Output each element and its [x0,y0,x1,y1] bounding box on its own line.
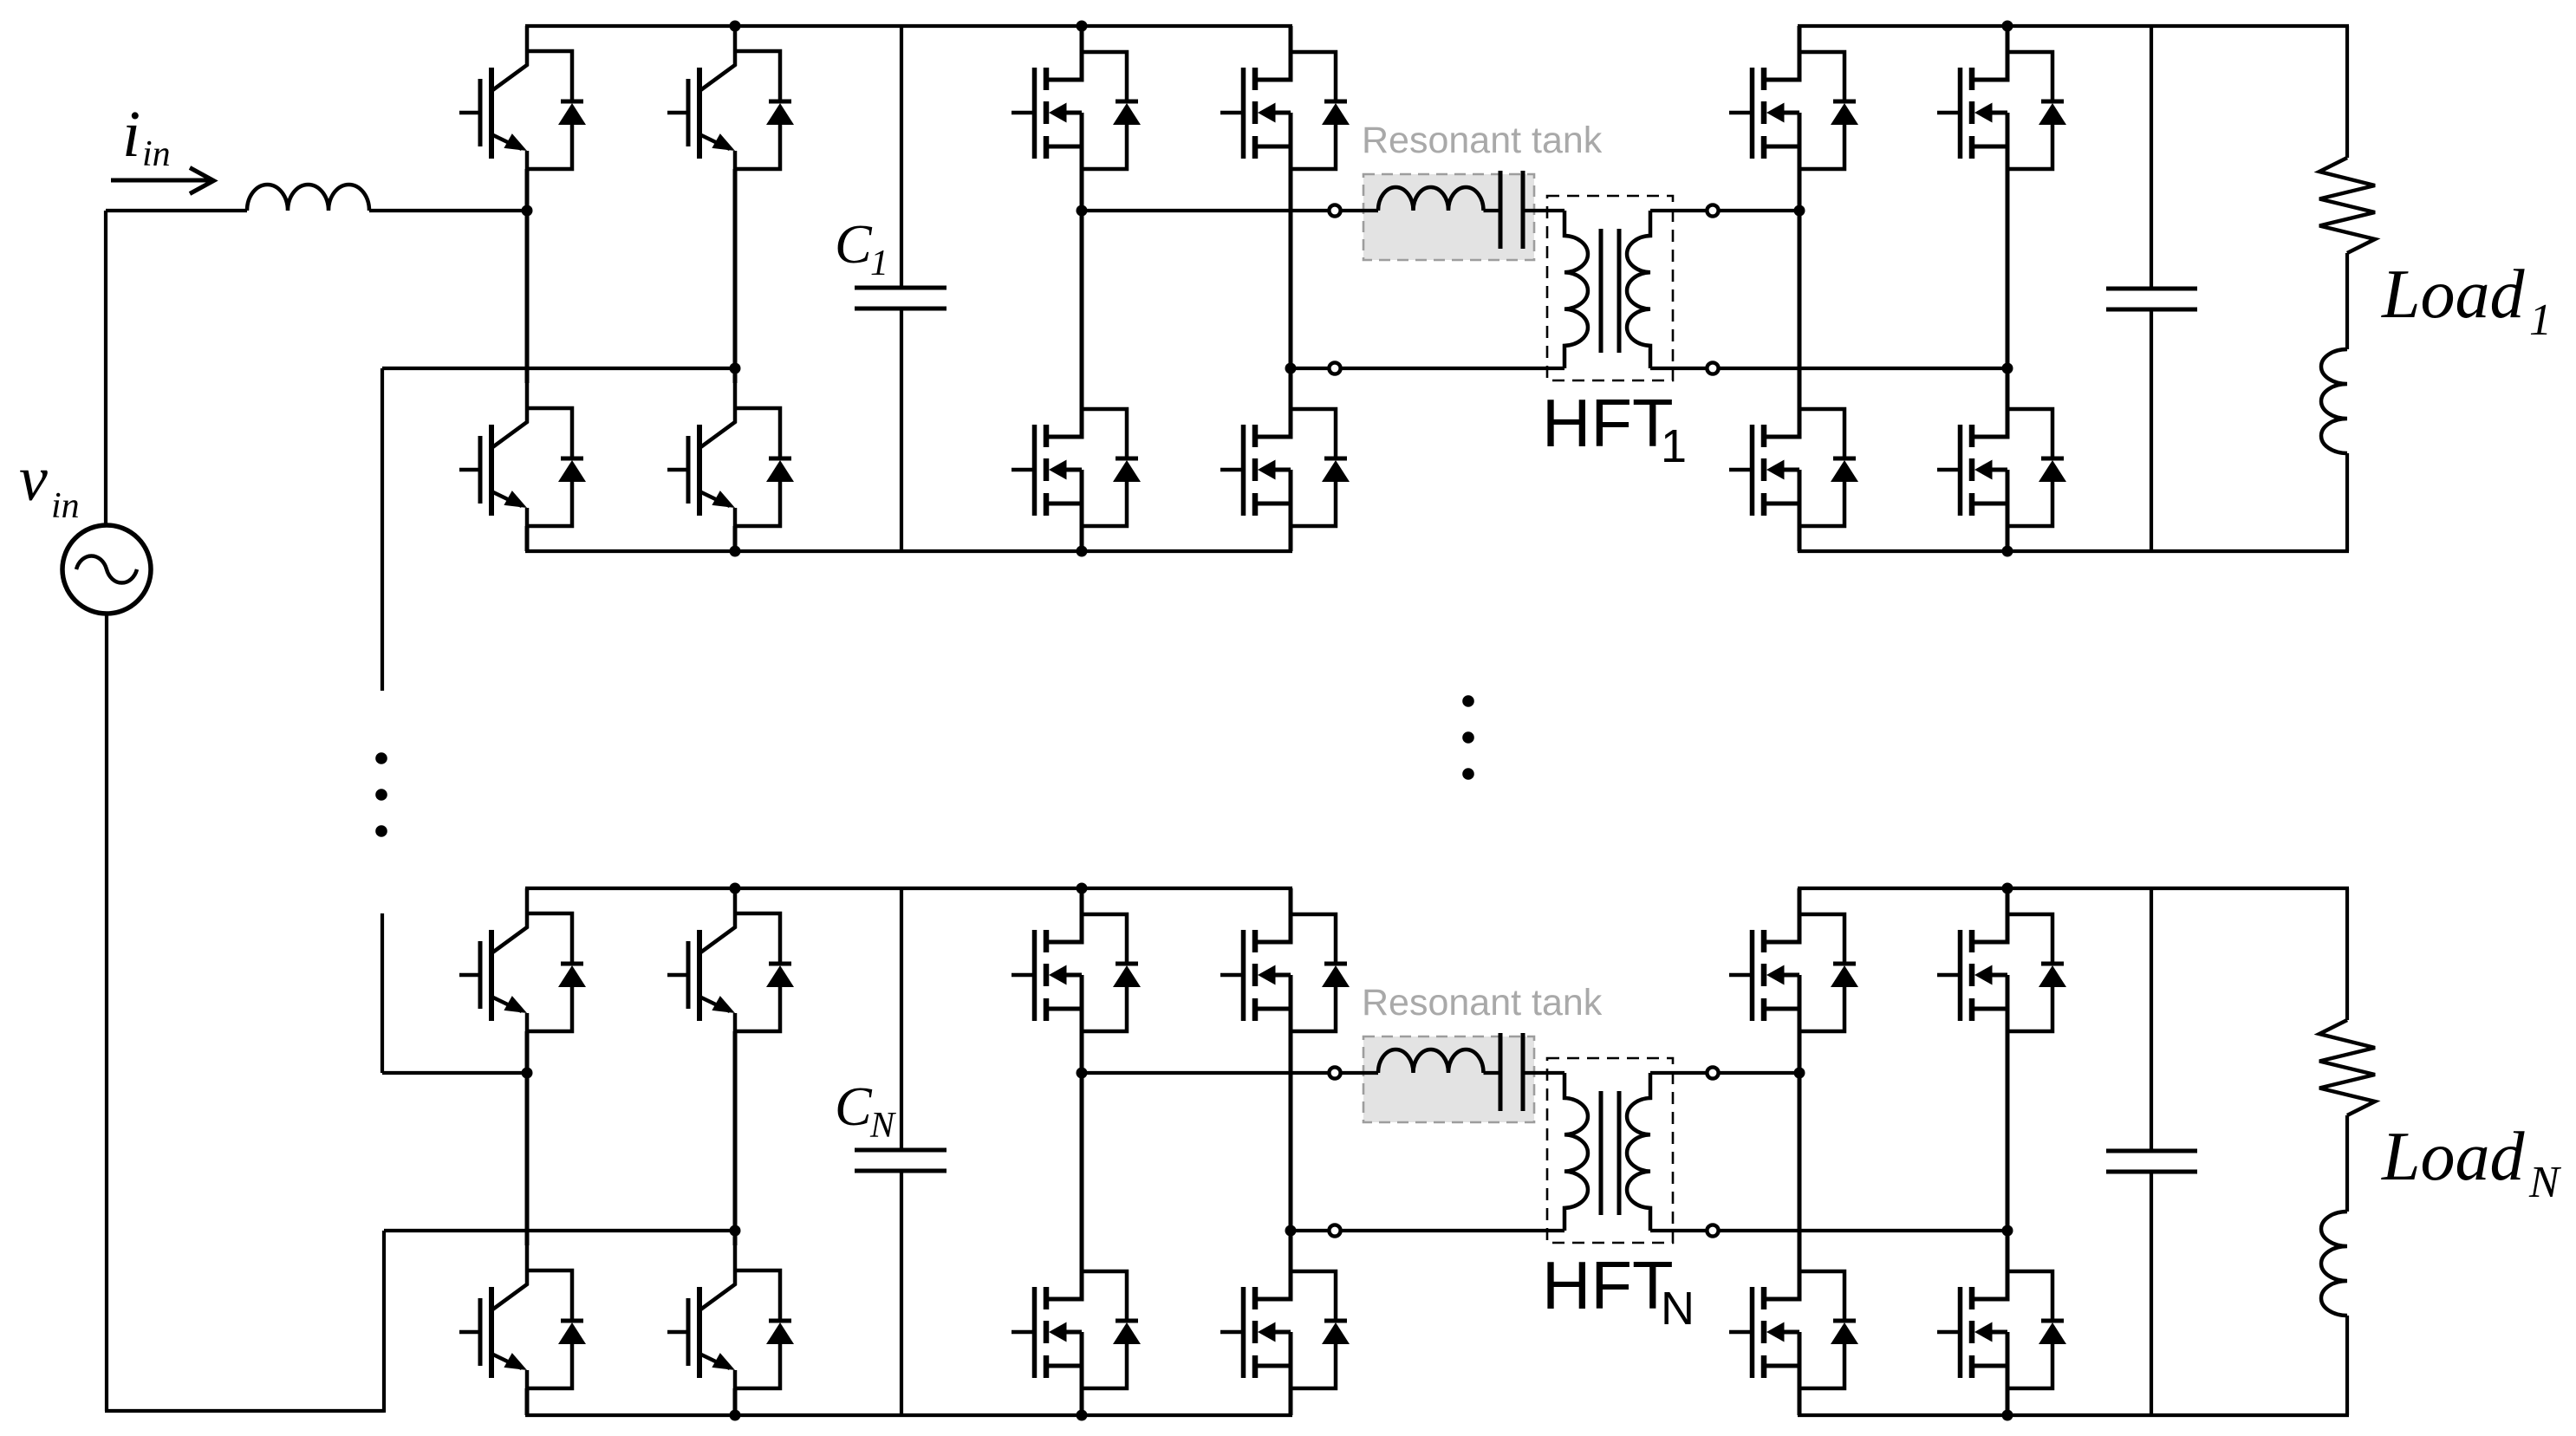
svg-text:N: N [1661,1283,1695,1335]
AC source v_in (circle) [62,525,151,614]
wire: inverter right leg source to midpoint [1289,169,1293,368]
wire: rectifier left leg source to midpoint [1798,169,1802,211]
svg-text:Resonant tank: Resonant tank [1362,120,1603,161]
wire: inverter right leg lower source to bottom rail [1289,526,1293,551]
wire: DC-link capacitor CN bottom lead [900,1171,903,1415]
svg-text:HFT: HFT [1542,1247,1674,1323]
wire: left IGBT leg upper-to-midpoint [525,169,530,211]
wire: right IGBT leg lower emitter to bottom rail [733,1388,738,1415]
transistor S14 (lower-right IGBT of input H-bridge 1) with anti-parallel diode [667,383,794,526]
wire: left IGBT leg midpoint down to lower IGBT [525,1073,530,1245]
wire: inverter right leg midpoint to lower MOSFET [1289,1231,1293,1245]
transistor S110 (upper-right MOSFET of output rectifier 1) with body diode [1937,26,2066,169]
wire: top DC rail of front-end converter 1 [525,24,1292,28]
junction: rectifier right leg on bottom rail [2002,546,2013,557]
wire: rectifier left leg midpoint to lower MOSFET [1798,1073,1802,1245]
terminal port (inverter + output) 1 [1329,205,1340,216]
wire: top rail of output rectifier N [1798,887,2349,890]
wire: DC-link capacitor CN top lead [900,888,903,1150]
arrow: input current direction [111,179,210,183]
wire: output capacitor CoN top lead [2150,888,2153,1151]
junction: inverter left leg on top rail [1077,883,1088,894]
wire: DC-link capacitor C1 top lead [900,26,903,288]
node DN (inverter output -) [1285,1225,1297,1237]
wire: inverter right leg midpoint to lower MOSFET [1289,368,1293,383]
wire: top rail of output rectifier 1 [1798,24,2349,28]
resistor (Load1 resistive part) [2319,158,2375,253]
inductor (LoadN inductive part) [2321,1212,2347,1316]
wire: transformer secondary - to rectifier [1650,367,2007,370]
junction: rectifier right leg on top rail [2002,21,2013,32]
wire: rectifier right leg midpoint to lower MOSFET [2006,368,2010,383]
wire: top DC rail of front-end converter N [525,887,1292,890]
wire: resonant inductor to capacitor [1484,209,1499,212]
inductor L (input boost inductor) [247,185,369,211]
wire: inverter output + to resonant tank [1082,209,1378,212]
wire: rectifier left leg lower source to bottom rail [1798,526,1802,551]
terminal port (secondary -) N [1707,1225,1718,1236]
node CN (inverter output +) [1077,1068,1088,1079]
wire: bottom DC rail of front-end converter 1 [525,549,1292,553]
wire: load inductor to bottom rail N [2345,1316,2349,1415]
wire: rectifier right leg lower source to bottom rail [2006,526,2010,551]
transformer HFTN secondary winding [1627,1073,1650,1231]
junction: right IGBT leg on bottom rail [730,1410,741,1421]
wire: series link down-run (upper) [381,368,384,691]
terminal port (secondary +) N [1707,1067,1718,1078]
junction: rectifier right leg on bottom rail [2002,1410,2013,1421]
wire: output capacitor Co1 top lead [2150,26,2153,289]
transistor S19 (upper-left MOSFET of output rectifier 1) with body diode [1729,26,1858,169]
terminal port (inverter + output) N [1329,1067,1340,1078]
svg-text:Load: Load [2381,257,2525,333]
wire: right IGBT leg midpoint to lower IGBT [733,368,738,383]
ellipsis dot 2 (module chain middle) [1462,731,1474,744]
svg-text:N: N [869,1106,896,1146]
wire: rectifier right leg midpoint to lower MOSFET [2006,1231,2010,1245]
svg-text:C: C [835,1075,873,1137]
terminal port (secondary +) 1 [1707,205,1718,216]
transistor S15 (upper-left MOSFET of HF inverter 1) with body diode [1012,26,1141,169]
transformer HFTN enclosure (dashed) [1547,1058,1673,1243]
transistor SN11 (lower-left MOSFET of output rectifier N) with body diode [1729,1245,1858,1388]
wire: bottom rail of output rectifier N [1798,1413,2349,1417]
wire: inverter left leg lower source to bottom rail [1080,1388,1084,1415]
wire: inverter output - to transformer primary bottom [1291,367,1564,370]
transistor S11 (upper-left IGBT of input H-bridge 1) with anti-parallel diode [459,26,586,169]
svg-text:N: N [2528,1158,2562,1207]
transistor SN8 (lower-right MOSFET of HF inverter N) with body diode [1220,1245,1350,1388]
svg-text:in: in [51,486,80,526]
capacitor Co1 (output filter) [2106,287,2197,291]
wire: bottom rail of output rectifier 1 [1798,549,2349,553]
ellipsis dot 3 (module chain middle) [1462,768,1474,780]
wire: inverter left leg lower source to bottom rail [1080,526,1084,551]
transformer HFTN core [1599,1091,1603,1215]
junction: inverter left leg on top rail [1077,21,1088,32]
transistor S111 (lower-left MOSFET of output rectifier 1) with body diode [1729,383,1858,526]
wire: bottom DC rail of front-end converter N [525,1413,1292,1417]
transformer HFT1 enclosure (dashed) [1547,196,1673,380]
node E1 (rectifier input +) [1794,205,1805,217]
wire: v_in to input inductor [106,209,247,212]
wire: right IGBT leg upper emitter down to midpoint [733,169,738,368]
junction: rectifier right leg on top rail [2002,883,2013,894]
transistor SN10 (upper-right MOSFET of output rectifier N) with body diode [1937,888,2066,1031]
junction: right IGBT leg on top rail [730,21,741,32]
wire: inverter left leg source to midpoint [1080,169,1084,211]
junction: right IGBT leg on top rail [730,883,741,894]
resonant tank enclosure box N [1363,1036,1534,1122]
svg-text:Resonant tank: Resonant tank [1362,982,1603,1023]
wire: node B1 to series link [382,367,735,370]
transformer HFT1 primary winding [1564,211,1588,368]
transformer HFTN primary winding [1564,1073,1588,1231]
transistor SN9 (upper-left MOSFET of output rectifier N) with body diode [1729,888,1858,1031]
wire: input inductor to node A1 [369,209,527,212]
wire: transformer secondary + to rectifier [1650,209,1799,212]
transistor S13 (lower-left IGBT of input H-bridge 1) with anti-parallel diode [459,383,586,526]
wire: return to right IGBT leg of module N [384,1229,735,1232]
transformer HFT1 core [1599,229,1603,353]
wire: inverter output - to transformer primary bottom [1291,1229,1564,1232]
transistor S18 (lower-right MOSFET of HF inverter 1) with body diode [1220,383,1350,526]
wire: rectifier right leg source to midpoint [2006,1031,2010,1231]
junction: inverter left leg on bottom rail [1077,1410,1088,1421]
transistor SN1 (upper-left IGBT of input H-bridge N) with anti-parallel diode [459,888,586,1031]
node EN (rectifier input +) [1794,1068,1805,1079]
transistor SN2 (upper-right IGBT of input H-bridge N) with anti-parallel diode [667,888,794,1031]
wire: right IGBT leg upper emitter down to midpoint [733,1031,738,1231]
wire: v_in bottom lead [105,614,108,1411]
transistor S12 (upper-right IGBT of input H-bridge 1) with anti-parallel diode [667,26,794,169]
capacitor CoN (output filter) [2106,1149,2197,1153]
capacitor CN (DC-link) [855,1148,946,1153]
wire: inverter output + to resonant tank [1082,1071,1378,1075]
transformer HFT1 secondary winding [1627,211,1650,368]
wire: output capacitor Co1 bottom lead [2150,309,2153,551]
wire: output capacitor CoN bottom lead [2150,1172,2153,1415]
ellipsis dot 1 (module chain middle) [1462,695,1474,707]
wire: inverter right leg source to midpoint [1289,1031,1293,1231]
wire: resonant capacitor to transformer primary [1525,209,1564,212]
wire: rectifier right leg source to midpoint [2006,169,2010,368]
transistor SN5 (upper-left MOSFET of HF inverter N) with body diode [1012,888,1141,1031]
wire: return riser to node B-N [382,1231,386,1413]
wire: rectifier left leg lower source to bottom rail [1798,1388,1802,1415]
wire: left IGBT leg lower emitter to bottom rail [525,1388,530,1415]
node BN (return midpoint, right IGBT leg) [730,1225,741,1237]
transistor S16 (upper-right MOSFET of HF inverter 1) with body diode [1220,26,1350,169]
svg-text:1: 1 [870,244,888,283]
AC source sine symbol [76,556,137,582]
wire: load inductor to bottom rail 1 [2345,453,2349,551]
svg-text:i: i [122,98,140,171]
wire: rectifier right leg lower source to bottom rail [2006,1388,2010,1415]
wire: rectifier left leg source to midpoint [1798,1031,1802,1073]
wire: load resistor to load inductor 1 [2345,253,2349,349]
transistor SN6 (upper-right MOSFET of HF inverter N) with body diode [1220,888,1350,1031]
wire: rectifier left leg midpoint to lower MOSFET [1798,211,1802,383]
svg-text:Load: Load [2381,1119,2525,1195]
svg-text:1: 1 [1661,420,1687,472]
junction: inverter left leg on bottom rail [1077,546,1088,557]
wire: inverter left leg midpoint to lower MOSFET [1080,1073,1084,1245]
ellipsis dot 3 (left chain) [375,825,387,837]
wire: series link to node A-N [382,1071,527,1075]
wire: left IGBT leg upper-to-midpoint [525,1031,530,1073]
wire: left IGBT leg midpoint down to lower IGBT [525,211,530,383]
node C1 (inverter output +) [1077,205,1088,217]
inductor LrN (resonant) [1378,1049,1484,1073]
wire: v_in top lead [104,211,107,525]
transistor S112 (lower-right MOSFET of output rectifier 1) with body diode [1937,383,2066,526]
svg-text:v: v [19,444,48,515]
svg-text:C: C [835,213,873,275]
capacitor CrN (resonant) [1499,1033,1503,1111]
wire: right IGBT leg lower emitter to bottom rail [733,526,738,551]
wire: load resistor to load inductor N [2345,1115,2349,1212]
wire: right IGBT leg midpoint to lower IGBT [733,1231,738,1245]
node D1 (inverter output -) [1285,363,1297,374]
capacitor C1 (DC-link) [855,286,946,290]
wire: top rail to load 1 [2345,26,2349,158]
wire: resonant inductor to capacitor [1484,1071,1499,1075]
capacitor Cr1 (resonant) [1499,171,1503,249]
wire: inverter right leg lower source to bottom rail [1289,1388,1293,1415]
transistor SN7 (lower-left MOSFET of HF inverter N) with body diode [1012,1245,1141,1388]
inductor Lr1 (resonant) [1378,187,1484,211]
transistor SN4 (lower-right IGBT of input H-bridge N) with anti-parallel diode [667,1245,794,1388]
resistor (LoadN resistive part) [2319,1020,2375,1115]
svg-text:in: in [142,134,171,174]
ellipsis dot 2 (left chain) [375,789,387,801]
wire: resonant capacitor to transformer primary [1525,1071,1564,1075]
svg-text:1: 1 [2529,296,2552,345]
wire: series link down-run (lower) [381,913,384,1073]
wire: transformer secondary + to rectifier [1650,1071,1799,1075]
terminal port (inverter - output) 1 [1329,362,1340,374]
node B1 (return midpoint, right IGBT leg) [730,363,741,374]
wire: transformer secondary - to rectifier [1650,1229,2007,1232]
node AN (input midpoint, left IGBT leg) [522,1068,533,1079]
wire: inverter left leg midpoint to lower MOSFET [1080,211,1084,383]
transistor SN12 (lower-right MOSFET of output rectifier N) with body diode [1937,1245,2066,1388]
wire: inverter left leg source to midpoint [1080,1031,1084,1073]
wire: DC-link capacitor C1 bottom lead [900,309,903,551]
wire: top rail to load N [2345,888,2349,1020]
wire: left IGBT leg lower emitter to bottom rail [525,526,530,551]
junction: right IGBT leg on bottom rail [730,546,741,557]
terminal port (inverter - output) N [1329,1225,1340,1236]
node A1 (input midpoint, left IGBT leg) [522,205,533,217]
wire: bottom return run [105,1409,384,1413]
node F1 (rectifier input -) [2002,363,2013,374]
transistor S17 (lower-left MOSFET of HF inverter 1) with body diode [1012,383,1141,526]
transistor SN3 (lower-left IGBT of input H-bridge N) with anti-parallel diode [459,1245,586,1388]
ellipsis dot 1 (left chain) [375,752,387,764]
inductor (Load1 inductive part) [2321,349,2347,453]
terminal port (secondary -) 1 [1707,362,1718,374]
node FN (rectifier input -) [2002,1225,2013,1237]
resonant tank enclosure box 1 [1363,174,1534,260]
svg-text:HFT: HFT [1542,385,1674,461]
